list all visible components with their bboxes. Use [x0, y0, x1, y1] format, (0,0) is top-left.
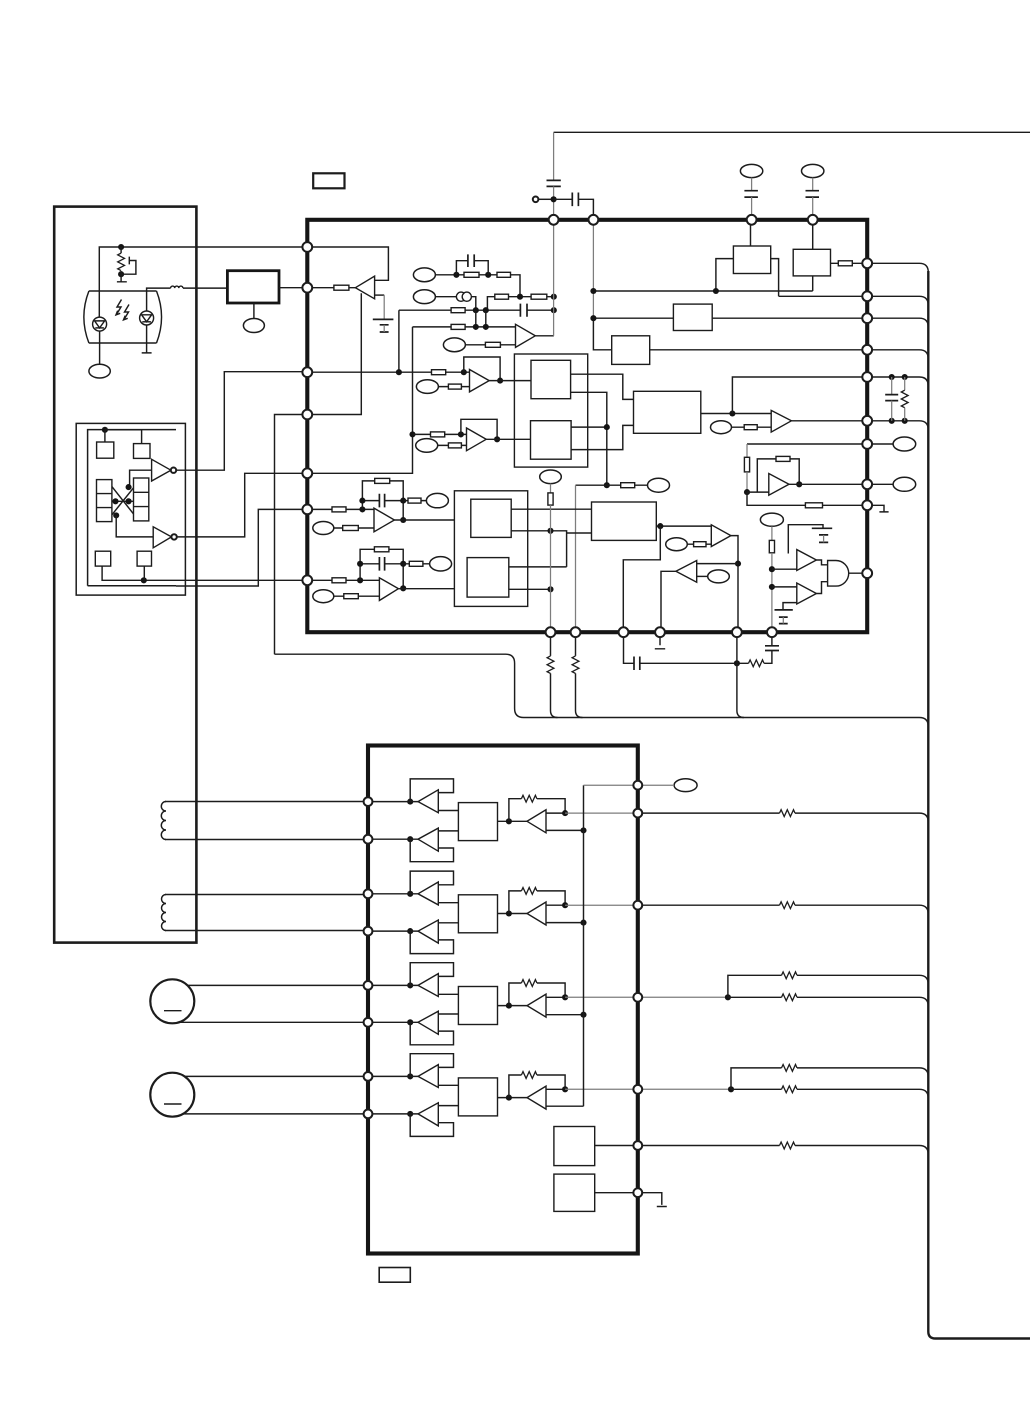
node R291: [590, 288, 596, 294]
ch1 node in1: [407, 799, 413, 805]
IC1 right pin 3: [862, 313, 872, 323]
node C3n: [551, 307, 557, 313]
block FIL-B1: [471, 499, 511, 537]
wire after coupling: [471, 297, 475, 311]
inverter G2 bubble: [171, 534, 176, 539]
ellipse label E-V2: [802, 164, 824, 177]
IC1 right pin 2: [862, 291, 872, 301]
IC2 right pin 5: [633, 1085, 642, 1094]
ch2 op-amp OP2: [527, 902, 546, 925]
ellipse label E-A (row A): [413, 268, 435, 282]
wire row444 ellipse: [872, 443, 893, 445]
wire U8 out to bottom pin3: [661, 571, 676, 632]
switch contact bracket: [121, 257, 136, 275]
capacitor C3 decoupling: [751, 178, 753, 191]
resistor R17: [805, 503, 822, 508]
node A1: [453, 272, 459, 278]
IC1 bottom pin 5: [732, 627, 742, 637]
wire U1 to battery B1: [375, 294, 385, 296]
wire MU1 to G3: [772, 568, 797, 570]
cross-coupling wires: [112, 487, 134, 515]
right row263 to bus: [872, 263, 928, 272]
wire S3 to pin7 row: [102, 566, 307, 580]
wire U4out to FIL-A2: [486, 438, 530, 440]
capacitor C6: [520, 304, 527, 317]
F2 capacitor C8: [360, 563, 403, 565]
node RC4: [902, 418, 908, 424]
bottom pin3 coupling C9 and R30: [624, 632, 635, 663]
resistor R3: [497, 272, 511, 277]
node C1n: [473, 307, 479, 313]
node D2: [483, 324, 489, 330]
wire D2 top to inductor: [147, 288, 171, 311]
IC2 left pin 1: [364, 797, 373, 806]
row905 out resistor to bus: [642, 905, 928, 914]
ch1 bus node: [580, 827, 586, 833]
node RC1: [889, 374, 895, 380]
inverter G2: [153, 527, 171, 548]
label box BOTTOM: [379, 1268, 410, 1283]
wire G2 output to pin5: [177, 473, 307, 537]
IC2 right pin 6: [633, 1141, 642, 1150]
ch node out: [562, 902, 568, 908]
IC2 right pin 2: [633, 809, 642, 818]
node W1: [744, 489, 750, 495]
wire W1 top to IC2: [165, 801, 368, 803]
capacitor C11 (vertical): [891, 377, 893, 395]
row1089 gray lead: [642, 1088, 731, 1090]
wire W1 to row505: [747, 492, 867, 505]
ch3 wire block out: [498, 1005, 528, 1007]
wire U7n to U8: [697, 563, 738, 565]
IC2 left pin 5: [364, 981, 373, 990]
right row296 to bus: [872, 296, 928, 305]
node U7n: [735, 561, 741, 567]
gray vbus1 from top pin: [553, 220, 555, 336]
block DEC: [592, 502, 657, 540]
transformer winding W2 (lower coil): [162, 895, 167, 931]
feedback loop U6 with R18: [757, 459, 799, 492]
resistor R4: [495, 294, 509, 299]
wire G1 output to pin3: [176, 372, 307, 471]
op-amp U10: [379, 578, 398, 601]
ch4 wire low to bus end: [546, 1105, 584, 1107]
node F1a: [359, 506, 365, 512]
feedback loop U4: [461, 419, 497, 439]
IC1 top pin 1: [549, 215, 559, 225]
ellipse label E-U7: [666, 538, 688, 551]
wire L1 to transformer T1: [183, 287, 227, 289]
ch3 OP3 feedback resistor: [509, 983, 565, 1006]
ch4 wire block out: [498, 1097, 528, 1099]
wire inner-box bottom to pin6: [176, 509, 307, 586]
IC2 left pin 7: [364, 1072, 373, 1081]
node J2: [118, 271, 124, 277]
ch1 wire A1a out: [438, 810, 458, 812]
IC1 left pin 2: [302, 283, 312, 293]
ellipse label E-F2: [430, 557, 452, 571]
resistor R10: [307, 371, 469, 373]
latch stack right: [134, 478, 149, 521]
ch node out: [562, 810, 568, 816]
wire OSC2 out: [595, 1192, 638, 1194]
ch2 wire A2a out: [438, 902, 458, 904]
wire FIL-A1 out2 down vlink: [571, 392, 607, 485]
F2 loop resistor R25: [360, 549, 403, 588]
ellipse label E-T1: [243, 319, 264, 333]
resistor R23: [334, 527, 374, 529]
feedback loop U3: [464, 357, 500, 381]
resistor R7: [451, 324, 465, 329]
wire top supply rail: [554, 131, 1030, 133]
wire FIL-B1 out1 to DEC in1: [511, 508, 591, 510]
wire S4 stub: [143, 566, 145, 580]
ch4 node in2: [407, 1111, 413, 1117]
F1 loop resistor R21: [362, 481, 403, 520]
vertical links rowC-rowD: [476, 310, 486, 327]
op-amp U2: [516, 324, 536, 347]
wire opamp to out node: [546, 904, 565, 906]
buffer G4: [797, 583, 817, 604]
ch2 A2a feedback loop: [410, 871, 453, 894]
wire W2 bottom to IC2: [165, 930, 368, 932]
capacitor C4 decoupling: [812, 178, 814, 191]
square S1: [97, 442, 114, 458]
wire MPX out: [701, 413, 771, 415]
ch4 gain block: [458, 1078, 497, 1116]
IC1 right pin 1: [862, 258, 872, 268]
ch2 gain block: [458, 895, 497, 933]
light arrows inside PC1: [116, 300, 129, 320]
ch3 gain block: [458, 987, 497, 1025]
wire FIL-A2 out1: [571, 426, 607, 428]
block FIL-B2: [467, 558, 509, 598]
node R291b: [713, 288, 719, 294]
resistor R19 (vertical): [771, 526, 773, 540]
wire rowB left: [435, 296, 456, 298]
wire J5 to C2: [554, 198, 573, 200]
ellipse label E-VREF: [540, 470, 562, 484]
capacitor C10: [765, 646, 779, 651]
wire W1 to U6 input: [747, 491, 769, 493]
node J5: [551, 196, 557, 202]
square S3: [95, 551, 110, 566]
node J3: [102, 427, 108, 433]
resistor R12: [413, 433, 467, 435]
wire REG1 top stub: [750, 220, 752, 246]
ch2 node in2: [407, 928, 413, 934]
filter F2 input resistor R24: [307, 579, 379, 581]
IC2 right pin 7: [633, 1188, 642, 1197]
wire mic M1 bottom: [178, 1021, 368, 1023]
op-amp U5: [771, 410, 791, 432]
wire U7 out down to bottom pin5: [731, 536, 738, 633]
ellipse label E-MUTE: [760, 513, 783, 526]
node X1: [126, 484, 132, 490]
optocoupler PC1 outline: [84, 291, 162, 343]
ground below R-opto: [117, 271, 127, 282]
ch2 wire block out: [498, 913, 528, 915]
inverter G1 bubble: [171, 468, 176, 473]
wire rowC: [399, 310, 554, 372]
ch3 buffer A3a: [368, 984, 418, 986]
wire row291: [593, 259, 867, 297]
capacitor C5 bypass loop: [456, 261, 488, 275]
node N997: [725, 994, 731, 1000]
bottom pin4 ground: [655, 632, 665, 649]
wire U5 out: [791, 420, 867, 422]
row997 gray lead: [642, 996, 728, 998]
wire OSC1 out: [595, 1145, 638, 1147]
node U6out: [796, 481, 802, 487]
node U3in: [461, 369, 467, 375]
ellipse label E-opto: [89, 364, 110, 378]
square S4: [137, 551, 151, 566]
ch2 node opin: [506, 910, 512, 916]
ch1 wire A1b out: [438, 830, 458, 832]
IC1 bottom pin 3: [619, 627, 629, 637]
node FB2: [547, 586, 553, 592]
resistor R22: [403, 500, 426, 502]
IC1 top pin 4: [808, 215, 818, 225]
resistor R16 (vertical): [744, 457, 749, 472]
wire D2 bottom to ground: [142, 325, 152, 353]
ch2 wire A2b out: [438, 922, 458, 924]
ch3 buffer A3b: [368, 1021, 418, 1023]
block REG1: [733, 246, 770, 274]
row997 branch resistor to bus: [728, 997, 928, 1006]
op-amp U1 (input buffer, apex left): [355, 276, 374, 299]
right row420 to bus: [872, 421, 928, 430]
main right bus: [928, 271, 1030, 1339]
ellipse label E-V: [648, 478, 670, 492]
IC1 right pin 7: [862, 439, 872, 449]
ch2 wire low to bus: [546, 922, 584, 924]
ch4 op-amp OP4: [527, 1086, 546, 1109]
ellipse label E-F2L: [313, 590, 334, 603]
wire E-U8 to U8: [697, 575, 708, 577]
IC1 left pin 3: [302, 367, 312, 377]
wire V2 left down to bottom pin2: [576, 484, 607, 486]
node C2n: [483, 307, 489, 313]
ch1 wire low to bus: [546, 829, 584, 831]
ch node out: [562, 1086, 568, 1092]
wire F1 out to FIL-B: [394, 519, 454, 521]
wire M1 up to pin row377: [732, 377, 867, 414]
wire W1 bottom to IC2: [165, 839, 368, 841]
ch1 OP1 feedback resistor: [509, 799, 565, 822]
ch1 op-amp OP1: [527, 810, 546, 833]
node X4: [113, 512, 119, 518]
buffer G3: [797, 550, 817, 571]
wire G5 out: [849, 572, 868, 574]
node B1: [517, 294, 523, 300]
IC1 bottom pin 1: [546, 627, 556, 637]
wire LED1 cathode to test ellipse: [99, 331, 101, 364]
resistor R1: [307, 287, 355, 289]
ch1 A1b feedback loop: [410, 839, 453, 862]
node U4in: [458, 431, 464, 437]
resistor R5: [531, 294, 547, 299]
ch3 node in2: [407, 1019, 413, 1025]
wire U1 bottom to pin4 row: [307, 293, 361, 414]
right row350 to bus: [872, 350, 928, 359]
wire terminal to J5: [538, 198, 553, 200]
block MPX: [634, 391, 701, 433]
node R318: [590, 315, 596, 321]
node F2out: [400, 585, 406, 591]
node X3: [126, 498, 132, 504]
under-IC return wire: [275, 415, 929, 727]
wire mic M2 top: [178, 1075, 368, 1077]
dual block FIL-B outer: [454, 491, 527, 607]
resistor R31 (vertical zigzag): [904, 377, 906, 390]
wire MU2 to G4: [772, 586, 797, 588]
ch4 wire A4a out: [438, 1084, 458, 1086]
node F1out: [400, 517, 406, 523]
node N1089: [728, 1086, 734, 1092]
wire C2 to top pin P-T2: [578, 199, 593, 220]
microphone M2: [150, 1073, 194, 1117]
IC2 right pin 1: [633, 781, 642, 790]
wire mic M2 bottom: [178, 1113, 368, 1115]
ch2 OP2 feedback resistor: [509, 891, 565, 914]
node MU1: [769, 566, 775, 572]
ch4 buffer A4a: [368, 1075, 418, 1077]
IC1 left pin 4: [302, 410, 312, 420]
wire DEC out to U7: [656, 525, 711, 527]
F1 capacitor C7: [362, 500, 403, 502]
IC2 right pin 3: [633, 901, 642, 910]
ch3 wire A3a out: [438, 993, 458, 995]
IC1 top pin 3: [747, 215, 757, 225]
label box TOP: [313, 173, 344, 188]
ellipse label E-IC2: [674, 779, 697, 792]
IC1 right pin 8: [862, 479, 872, 489]
wire FIL-B1 out2: [509, 531, 592, 567]
op-amp U8 (apex left): [676, 561, 697, 583]
op-amp U1 feedback wire from pin1: [307, 247, 388, 280]
ch1 wire block out: [498, 820, 528, 822]
ch1 node in2: [407, 836, 413, 842]
AND gate G5: [816, 560, 827, 594]
wire opamp to out node: [546, 996, 565, 998]
wire C1 to node J5: [553, 186, 555, 219]
op-amp U7: [711, 525, 731, 547]
wire supply drop to C-top: [553, 132, 555, 180]
ch2 buffer A2b: [368, 930, 418, 932]
ch3 gray out wire: [565, 996, 638, 998]
ch2 gray out wire: [565, 904, 638, 906]
ch3 A3a feedback loop: [410, 963, 453, 986]
wire rowA: [435, 275, 520, 297]
wire row318: [593, 318, 867, 350]
node V1: [604, 424, 610, 430]
ch1 gain block: [458, 803, 497, 841]
photodiode D2 (right diode in circle): [140, 311, 154, 325]
block FIL-A1: [531, 360, 571, 398]
wire row444 to vertical resistor: [747, 443, 867, 445]
ellipse label E-R2: [893, 477, 916, 491]
wire FIL-A1 out1 to MPX in1: [571, 374, 634, 399]
wire U6 out to pin: [789, 483, 867, 485]
ch4 wire A4b out: [438, 1105, 458, 1107]
ellipse label E-U4: [416, 439, 438, 453]
node B2: [551, 294, 557, 300]
resistor R2: [464, 272, 479, 277]
wire FIL-A2 out2 to MPX in2: [571, 425, 633, 449]
gate sub-box outer: [76, 423, 185, 595]
wire pin to E-IC2: [642, 784, 674, 786]
node F2a: [357, 577, 363, 583]
ellipse label E-F1: [426, 493, 448, 507]
IC2 left pin 8: [364, 1110, 373, 1119]
wire U3out to FIL-A1: [489, 380, 531, 382]
outer shield box (left hybrid block): [54, 207, 196, 943]
ellipse label E-E: [443, 338, 465, 352]
ch4 OP4 feedback resistor: [509, 1075, 565, 1098]
op-amp U3: [470, 370, 490, 392]
inductor L1: [171, 286, 183, 288]
wire mic M1 top: [178, 984, 368, 986]
wire rowB right chain: [487, 297, 553, 311]
IC2 right pin 4: [633, 993, 642, 1002]
node FB1: [547, 528, 553, 534]
microphone M1: [150, 979, 194, 1023]
bottom pin2 pulldown: [575, 632, 577, 656]
wire row484 ellipse: [872, 483, 893, 485]
wire DET2 out: [650, 349, 868, 351]
IC1 left pin 7: [302, 575, 312, 585]
op-amp U9: [374, 508, 394, 532]
resistor R13: [438, 444, 467, 446]
node F1c: [400, 498, 406, 504]
gate sub-box inner: [88, 430, 176, 586]
ch1 node opin: [506, 818, 512, 824]
wire T1 bottom stub: [253, 303, 255, 319]
square S2: [134, 444, 151, 459]
op-amp U6: [769, 474, 789, 496]
node F2b: [357, 561, 363, 567]
ch3 node opin: [506, 1003, 512, 1009]
wire T1 to pin2: [279, 287, 307, 289]
IC2 main body outline: [368, 746, 638, 1254]
dual block FIL-A outer: [514, 354, 587, 467]
battery B3: [783, 603, 797, 610]
IC1 bottom pin 6: [767, 627, 777, 637]
latch stack left: [97, 480, 112, 522]
block OSC2: [554, 1174, 595, 1211]
ellipse label E-U8: [708, 570, 730, 583]
resistor R26: [403, 563, 429, 565]
wire opamp to out node: [546, 812, 565, 814]
ch3 node in1: [407, 982, 413, 988]
wire W2 top to IC2: [165, 894, 368, 896]
block FIL-A2: [531, 421, 572, 460]
ch node out: [562, 994, 568, 1000]
capacitor C2 (vertical plates): [572, 193, 578, 207]
node D3 on vertical: [409, 431, 415, 437]
block OSC1: [554, 1127, 595, 1166]
node J4: [141, 577, 147, 583]
ch3 wire A3b out: [438, 1013, 458, 1015]
battery B2: [788, 525, 823, 554]
row1145 resistor to bus: [642, 1146, 928, 1155]
IC2 left pin 3: [364, 889, 373, 898]
ch1 buffer A1b: [368, 838, 418, 840]
node M1: [729, 410, 735, 416]
resistor R9: [831, 262, 868, 264]
